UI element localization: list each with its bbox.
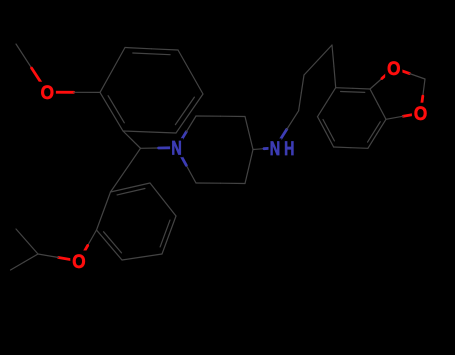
svg-text:N: N xyxy=(171,137,181,160)
svg-text:H: H xyxy=(284,138,294,160)
svg-text:O: O xyxy=(72,250,85,272)
svg-text:O: O xyxy=(387,57,400,79)
svg-text:O: O xyxy=(414,102,427,124)
svg-text:N: N xyxy=(270,137,280,160)
svg-text:O: O xyxy=(41,81,54,103)
